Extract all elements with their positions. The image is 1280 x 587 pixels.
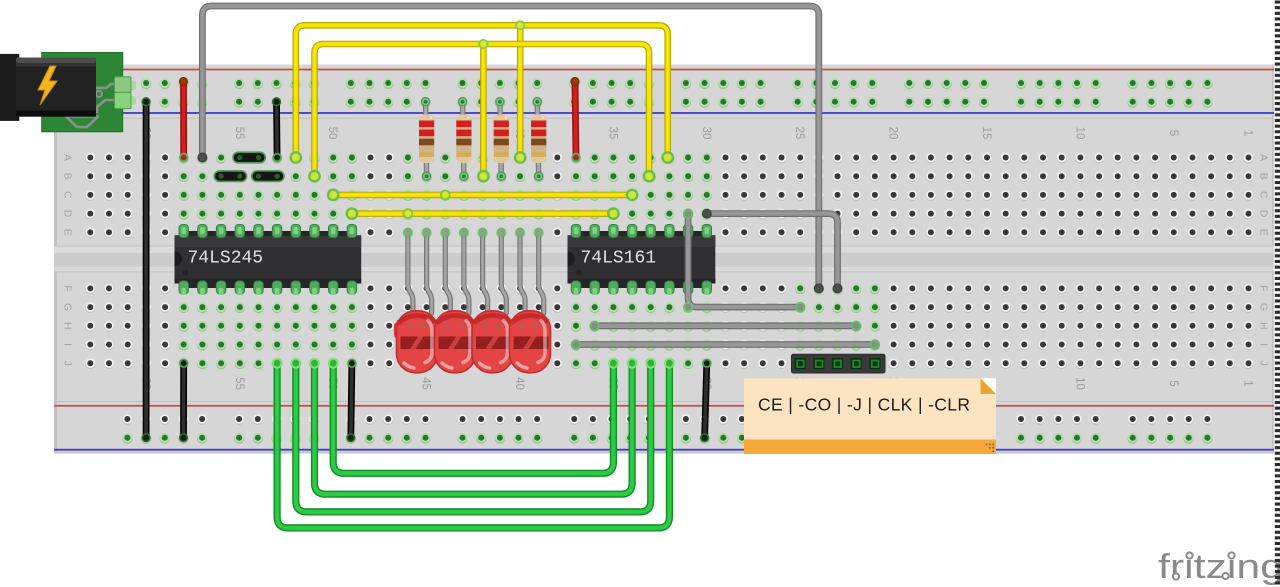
resistor R2 body: [456, 115, 471, 164]
DC barrel jack: [0, 54, 19, 121]
svg-text:45: 45: [420, 377, 432, 390]
wire yellow row C C50-C34: [333, 192, 632, 199]
svg-text:H: H: [62, 322, 74, 330]
wire yellow A52 over top to A32: [296, 25, 668, 157]
svg-text:H: H: [1258, 322, 1270, 330]
power supply PCB: [42, 53, 123, 132]
svg-text:F: F: [1258, 285, 1270, 291]
node D46 junction: [404, 209, 413, 218]
svg-text:J: J: [1258, 361, 1270, 366]
svg-text:55: 55: [233, 377, 245, 390]
node top yellow junction col42: [479, 40, 487, 48]
IC U1 74LS245 body: [175, 231, 362, 288]
svg-text:5: 5: [1167, 130, 1179, 136]
resistor R4 220ohm lead: [537, 102, 538, 177]
svg-text:74LS161: 74LS161: [581, 249, 657, 269]
svg-text:I: I: [1258, 343, 1270, 346]
wire black J49 to ground rail: [351, 363, 352, 438]
terminal block pin 1 (+): [128, 81, 136, 90]
wire red V+ rail to A58: [180, 82, 187, 158]
svg-text:55: 55: [233, 127, 245, 140]
svg-text:30: 30: [700, 127, 712, 140]
svg-text:C: C: [62, 191, 74, 199]
svg-text:J: J: [62, 361, 74, 366]
IC U2 74LS161 body: [568, 231, 716, 288]
wire green J53 to J32: [277, 363, 669, 528]
pin header J1 5-pin: [792, 354, 886, 373]
terminal block pin 2 (-): [128, 96, 136, 105]
svg-text:I: I: [62, 343, 74, 346]
wire red V+ rail to A37: [575, 82, 576, 158]
svg-text:1: 1: [1242, 380, 1254, 386]
svg-text:50: 50: [326, 127, 338, 140]
resistor R2 220ohm lead: [463, 102, 464, 177]
resistor R3 body: [494, 115, 509, 164]
svg-text:10: 10: [1073, 127, 1085, 140]
wire yellow branch top to B42: [480, 44, 487, 176]
resistor R1 220ohm lead: [426, 102, 427, 177]
svg-text:15: 15: [980, 127, 992, 140]
wire black J30 to ground rail: [705, 363, 707, 438]
right edge ruler strip: [1275, 1, 1280, 585]
node top yellow junction col40: [516, 21, 524, 29]
svg-text:E: E: [62, 229, 74, 236]
resistor R1 end connectors: [422, 98, 430, 106]
svg-text:20: 20: [887, 127, 899, 140]
lightning bolt icon: [38, 66, 57, 105]
resistor R4 body: [531, 115, 546, 164]
resistor R1 body: [419, 115, 434, 164]
power rail markings: [54, 69, 1274, 71]
resistor R3 220ohm lead: [500, 102, 501, 177]
power supply PCB traces: [96, 84, 116, 88]
wire jumper B54-B53: [252, 171, 284, 181]
svg-text:40: 40: [513, 377, 525, 390]
wire green J50 to J35: [333, 363, 613, 473]
wire yellow B51 over top to B33: [315, 44, 650, 176]
wire yellow row D D49-D35: [352, 210, 614, 217]
svg-text:G: G: [1258, 303, 1270, 311]
svg-text:5: 5: [1167, 380, 1179, 386]
LED D2 red: [435, 311, 476, 373]
node C44 junction: [441, 191, 450, 200]
svg-text:E: E: [1258, 229, 1270, 236]
svg-text:74LS245: 74LS245: [188, 249, 264, 269]
breadboard body: [54, 65, 1274, 454]
svg-text:G: G: [62, 303, 74, 311]
svg-text:F: F: [62, 285, 74, 291]
wire gray I37-I21: [576, 341, 875, 348]
wire jumper A55-A54: [233, 153, 265, 163]
resistor R2 end connectors: [459, 98, 467, 106]
wire gray D31 over IC to G25: [688, 214, 800, 308]
sticky note: [744, 378, 996, 454]
wire yellow branch top to A40: [517, 25, 524, 157]
svg-text:D: D: [1258, 210, 1270, 218]
wire green J51 to J34: [315, 363, 633, 494]
LED D3 red: [472, 311, 513, 373]
wire black rail to A53: [273, 102, 280, 158]
svg-text:25: 25: [793, 127, 805, 140]
svg-text:A: A: [62, 154, 74, 161]
center channel groove: [54, 246, 1274, 273]
IC U2 74LS161 pins: [571, 225, 711, 296]
main grid holes: [1244, 153, 1254, 164]
LED D4 red: [510, 311, 551, 373]
wire black J58 to ground rail: [180, 363, 187, 438]
svg-text:A: A: [1258, 154, 1270, 161]
LED legs (bent leads): [408, 232, 413, 313]
svg-text:C: C: [1258, 191, 1270, 199]
wire black ground long rail-to-rail: [143, 102, 150, 438]
svg-text:B: B: [62, 173, 74, 180]
resistor R3 end connectors: [496, 98, 504, 106]
bottom power rail holes: [122, 414, 132, 425]
wire green J52 to J33: [296, 363, 651, 512]
wire gray D30 to F23: [707, 214, 838, 289]
svg-text:B: B: [1258, 173, 1270, 180]
resistor R4 end connectors: [533, 98, 541, 106]
svg-text:CE | -CO | -J | CLK | -CLR: CE | -CO | -J | CLK | -CLR: [758, 395, 970, 415]
svg-text:1: 1: [1242, 130, 1254, 136]
wire gray A57 over top to F24: [202, 6, 818, 288]
LED D1 red: [394, 311, 438, 373]
svg-text:35: 35: [606, 127, 618, 140]
IC U1 74LS245 pins: [179, 225, 357, 296]
wire jumper B56-B55: [215, 171, 247, 181]
svg-text:D: D: [62, 210, 74, 218]
top power rail holes: [122, 78, 132, 89]
svg-text:10: 10: [1073, 377, 1085, 390]
wire gray H36-H22: [595, 322, 857, 329]
